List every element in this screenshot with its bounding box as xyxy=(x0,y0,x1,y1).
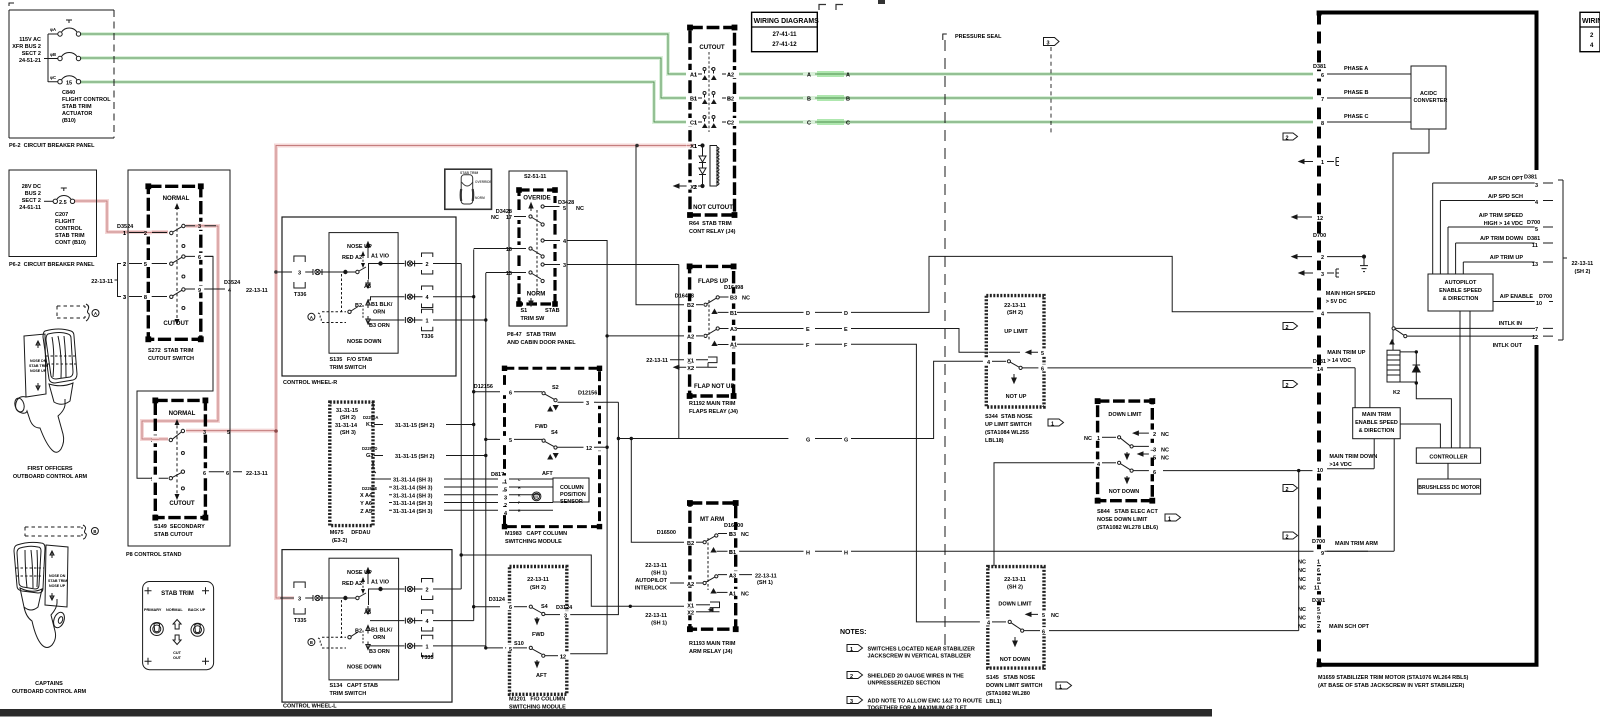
svg-text:(STA1084 WL255: (STA1084 WL255 xyxy=(985,430,1029,436)
svg-text:NC: NC xyxy=(1298,607,1306,613)
svg-text:BRUSHLESS DC MOTOR: BRUSHLESS DC MOTOR xyxy=(1418,485,1480,491)
svg-text:T336: T336 xyxy=(421,334,434,340)
svg-text:STAB CUTOUT: STAB CUTOUT xyxy=(154,532,194,538)
svg-text:CONTROL WHEEL-L: CONTROL WHEEL-L xyxy=(283,704,337,710)
svg-text:NC: NC xyxy=(491,215,499,221)
svg-text:D12156: D12156 xyxy=(474,384,493,390)
svg-text:CONT RELAY (J4): CONT RELAY (J4) xyxy=(689,229,736,235)
svg-text:(SH 1): (SH 1) xyxy=(651,571,667,577)
svg-text:5: 5 xyxy=(1535,227,1538,233)
svg-text:D3524: D3524 xyxy=(117,224,134,230)
svg-text:A1: A1 xyxy=(730,343,737,349)
svg-text:S10: S10 xyxy=(514,641,524,647)
svg-text:2.5: 2.5 xyxy=(59,200,67,206)
svg-text:& DIRECTION: & DIRECTION xyxy=(1359,428,1395,434)
svg-text:5: 5 xyxy=(509,438,512,444)
svg-text:A3: A3 xyxy=(364,610,371,616)
svg-text:DOWN LIMIT: DOWN LIMIT xyxy=(1108,412,1142,418)
svg-text:CUTOUT: CUTOUT xyxy=(699,44,725,51)
svg-text:1: 1 xyxy=(1321,160,1324,166)
svg-text:22-13-11: 22-13-11 xyxy=(645,563,667,569)
svg-text:D381: D381 xyxy=(1313,359,1326,365)
svg-text:MAIN TRIM ARM: MAIN TRIM ARM xyxy=(1335,541,1378,547)
svg-text:D381: D381 xyxy=(1524,175,1537,181)
svg-text:15: 15 xyxy=(66,81,72,87)
svg-text:D3524: D3524 xyxy=(224,280,241,286)
svg-text:NOSE UP: NOSE UP xyxy=(30,369,47,373)
svg-text:AUTOPILOT: AUTOPILOT xyxy=(635,578,667,584)
svg-text:RED A2: RED A2 xyxy=(342,255,362,261)
svg-text:NC: NC xyxy=(741,592,749,598)
svg-text:NOT DOWN: NOT DOWN xyxy=(1000,657,1031,663)
svg-text:24-51-21: 24-51-21 xyxy=(19,58,41,64)
svg-text:(STA1082 WL278 LBL6): (STA1082 WL278 LBL6) xyxy=(1097,525,1158,531)
svg-text:NC: NC xyxy=(1084,436,1092,442)
svg-text:OVERRIDE: OVERRIDE xyxy=(475,180,492,184)
svg-text:POSITION: POSITION xyxy=(560,492,586,498)
svg-text:XFR BUS 2: XFR BUS 2 xyxy=(12,44,41,50)
svg-text:NC: NC xyxy=(576,206,584,212)
svg-text:B2: B2 xyxy=(727,97,734,103)
svg-text:B1 BLK/: B1 BLK/ xyxy=(371,302,393,308)
svg-text:2: 2 xyxy=(425,588,428,594)
svg-text:LBL1): LBL1) xyxy=(986,699,1002,705)
svg-text:STAB TRIM: STAB TRIM xyxy=(48,579,67,583)
svg-text:D16498: D16498 xyxy=(675,294,694,300)
svg-text:G3: G3 xyxy=(366,453,373,459)
svg-text:C207: C207 xyxy=(55,212,68,218)
svg-text:RED A2: RED A2 xyxy=(342,581,362,587)
svg-text:3: 3 xyxy=(504,495,507,501)
svg-text:28V DC: 28V DC xyxy=(22,184,41,190)
svg-text:NOT CUTOUT: NOT CUTOUT xyxy=(693,204,733,211)
svg-text:1: 1 xyxy=(504,480,507,486)
svg-text:17: 17 xyxy=(506,215,512,221)
svg-text:MAIN TRIM DOWN: MAIN TRIM DOWN xyxy=(1329,454,1377,460)
svg-text:10: 10 xyxy=(1536,301,1542,307)
svg-text:D3124: D3124 xyxy=(556,605,573,611)
svg-text:9: 9 xyxy=(1317,616,1320,622)
svg-text:FLAPS UP: FLAPS UP xyxy=(698,278,728,285)
svg-text:T335: T335 xyxy=(421,655,434,661)
svg-text:(STA1082 WL280: (STA1082 WL280 xyxy=(986,691,1030,697)
svg-text:UNPRESSERIZED SECTION: UNPRESSERIZED SECTION xyxy=(868,681,941,687)
svg-text:ENABLE SPEED: ENABLE SPEED xyxy=(1439,288,1482,294)
svg-text:2: 2 xyxy=(144,231,147,237)
svg-text:D: D xyxy=(844,311,848,317)
svg-text:31-31-14 (SH 3): 31-31-14 (SH 3) xyxy=(393,494,433,500)
svg-text:DOWN LIMIT SWITCH: DOWN LIMIT SWITCH xyxy=(986,683,1043,689)
svg-text:B3: B3 xyxy=(730,295,737,301)
svg-text:HIGH > 14 VDC: HIGH > 14 VDC xyxy=(1484,221,1523,227)
svg-text:(AT BASE OF STAB JACKSCREW IN: (AT BASE OF STAB JACKSCREW IN VERT STABI… xyxy=(1318,683,1465,689)
svg-text:3: 3 xyxy=(564,614,567,620)
svg-text:6: 6 xyxy=(1153,470,1156,476)
svg-text:5: 5 xyxy=(509,647,512,653)
svg-text:D700: D700 xyxy=(1539,294,1552,300)
svg-text:27-41-12: 27-41-12 xyxy=(772,41,797,48)
svg-text:2: 2 xyxy=(850,674,853,680)
svg-text:A3: A3 xyxy=(364,284,371,290)
svg-text:2: 2 xyxy=(1286,487,1289,493)
svg-text:R64 STAB TRIM: R64 STAB TRIM xyxy=(689,221,732,227)
svg-text:CX: CX xyxy=(534,495,538,499)
svg-text:JACKSCREW IN VERTICAL STABLIZE: JACKSCREW IN VERTICAL STABLIZER xyxy=(868,654,971,660)
svg-text:G: G xyxy=(806,438,810,444)
svg-text:FWD: FWD xyxy=(532,632,545,638)
svg-text:NC: NC xyxy=(742,295,750,301)
svg-text:NC: NC xyxy=(1298,616,1306,622)
svg-text:AND CABIN DOOR PANEL: AND CABIN DOOR PANEL xyxy=(507,340,576,346)
svg-text:S844 STAB ELEC ACT: S844 STAB ELEC ACT xyxy=(1097,509,1158,515)
svg-text:S135 F/O STAB: S135 F/O STAB xyxy=(330,357,373,363)
svg-text:115V AC: 115V AC xyxy=(19,37,41,43)
svg-text:B1 BLK/: B1 BLK/ xyxy=(371,628,393,634)
svg-text:2: 2 xyxy=(425,262,428,268)
svg-text:P6-2 CIRCUIT BREAKER PANEL: P6-2 CIRCUIT BREAKER PANEL xyxy=(9,143,95,149)
svg-text:31-31-14 (SH 3): 31-31-14 (SH 3) xyxy=(393,486,433,492)
svg-text:D700: D700 xyxy=(1313,233,1326,239)
svg-text:3: 3 xyxy=(298,271,301,277)
svg-text:B2: B2 xyxy=(355,303,362,309)
svg-text:CONTROLLER: CONTROLLER xyxy=(1429,455,1467,461)
svg-text:SWITCHING MODULE: SWITCHING MODULE xyxy=(505,539,562,545)
svg-text:22-13-11: 22-13-11 xyxy=(645,613,667,619)
svg-text:11: 11 xyxy=(1314,586,1320,592)
svg-text:CONT (B10): CONT (B10) xyxy=(55,240,86,246)
svg-text:D2295A: D2295A xyxy=(363,415,378,420)
svg-text:ARM RELAY (J4): ARM RELAY (J4) xyxy=(689,649,733,655)
svg-text:1: 1 xyxy=(1317,560,1320,566)
svg-text:D700: D700 xyxy=(1527,220,1540,226)
svg-text:6: 6 xyxy=(509,390,512,396)
svg-text:3: 3 xyxy=(203,430,206,436)
svg-text:3: 3 xyxy=(850,699,853,705)
svg-text:2: 2 xyxy=(1317,624,1320,630)
svg-text:PHASE A: PHASE A xyxy=(1344,66,1368,72)
svg-text:D381: D381 xyxy=(1313,64,1326,70)
svg-text:NOSE UP: NOSE UP xyxy=(347,244,372,250)
svg-text:NORM: NORM xyxy=(527,291,546,298)
svg-text:A1: A1 xyxy=(690,73,697,79)
svg-text:OVERIDE: OVERIDE xyxy=(523,195,550,202)
svg-text:AC/DC: AC/DC xyxy=(1420,91,1437,97)
svg-text:B2: B2 xyxy=(687,303,694,309)
svg-text:12: 12 xyxy=(560,655,566,661)
svg-text:X2: X2 xyxy=(687,611,694,617)
svg-text:S1: S1 xyxy=(521,308,528,314)
svg-text:B: B xyxy=(310,640,313,645)
svg-text:NOSE UP: NOSE UP xyxy=(49,584,66,588)
svg-text:φB: φB xyxy=(50,52,56,57)
svg-text:ORN: ORN xyxy=(373,310,385,316)
svg-text:D16500: D16500 xyxy=(724,523,743,529)
svg-text:WIRIN: WIRIN xyxy=(1582,18,1600,25)
svg-text:8: 8 xyxy=(1317,577,1320,583)
svg-text:6: 6 xyxy=(1317,568,1320,574)
svg-text:S4: S4 xyxy=(541,604,549,610)
svg-text:S134 CAPT STAB: S134 CAPT STAB xyxy=(330,683,379,689)
svg-text:D: D xyxy=(806,311,810,317)
svg-text:NOSE DN: NOSE DN xyxy=(49,574,66,578)
svg-text:5: 5 xyxy=(144,262,147,268)
svg-text:3: 3 xyxy=(1153,448,1156,454)
svg-text:3: 3 xyxy=(1047,41,1050,47)
svg-text:A1 VIO: A1 VIO xyxy=(371,254,390,260)
svg-text:A/P TRIM DOWN: A/P TRIM DOWN xyxy=(1480,236,1523,242)
svg-text:12: 12 xyxy=(586,446,592,452)
svg-text:SECT 2: SECT 2 xyxy=(22,51,41,57)
svg-text:3: 3 xyxy=(123,295,126,301)
svg-text:BUS 2: BUS 2 xyxy=(25,191,41,197)
svg-text:S145 STAB NOSE: S145 STAB NOSE xyxy=(986,675,1035,681)
svg-text:NOSE DN: NOSE DN xyxy=(30,359,47,363)
svg-text:3: 3 xyxy=(1535,183,1538,189)
svg-text:COLUMN: COLUMN xyxy=(560,485,584,491)
svg-text:A/P SPD SCH: A/P SPD SCH xyxy=(1488,194,1523,200)
svg-text:1: 1 xyxy=(425,645,428,651)
svg-text:3: 3 xyxy=(586,401,589,407)
svg-text:MAIN TRIM UP: MAIN TRIM UP xyxy=(1327,350,1366,356)
svg-text:A3: A3 xyxy=(729,574,736,580)
svg-text:(SH 3): (SH 3) xyxy=(340,430,356,436)
svg-text:A2: A2 xyxy=(727,73,734,79)
svg-text:MT ARM: MT ARM xyxy=(700,516,724,523)
svg-text:8: 8 xyxy=(144,295,147,301)
svg-text:MAIN SCH OPT: MAIN SCH OPT xyxy=(1329,624,1370,630)
svg-text:H: H xyxy=(844,551,848,557)
svg-text:5: 5 xyxy=(227,430,230,436)
svg-text:B3 ORN: B3 ORN xyxy=(369,323,390,329)
svg-text:NORMAL: NORMAL xyxy=(163,195,190,202)
svg-text:A: A xyxy=(310,315,313,320)
svg-text:BACK UP: BACK UP xyxy=(188,608,206,612)
svg-text:2: 2 xyxy=(1321,255,1324,261)
svg-text:CONTROL WHEEL-R: CONTROL WHEEL-R xyxy=(283,380,337,386)
svg-text:B1: B1 xyxy=(690,97,697,103)
svg-text:6: 6 xyxy=(226,471,229,477)
svg-text:5: 5 xyxy=(504,488,507,494)
svg-text:CUTOUT SWITCH: CUTOUT SWITCH xyxy=(148,356,194,362)
svg-text:C840: C840 xyxy=(62,90,75,96)
svg-text:INTLK IN: INTLK IN xyxy=(1499,321,1522,327)
svg-text:NOSE DOWN: NOSE DOWN xyxy=(347,665,382,671)
svg-text:2: 2 xyxy=(123,262,126,268)
svg-text:M1201 F/O COLUMN: M1201 F/O COLUMN xyxy=(509,697,565,703)
svg-text:SHIELDED 20 GAUGE WIRES IN THE: SHIELDED 20 GAUGE WIRES IN THE xyxy=(868,674,965,680)
svg-text:3: 3 xyxy=(198,224,201,230)
svg-text:NC: NC xyxy=(741,532,749,538)
svg-text:B2: B2 xyxy=(355,629,362,635)
svg-text:D12156: D12156 xyxy=(578,391,597,397)
svg-text:14: 14 xyxy=(1317,367,1324,373)
svg-text:3: 3 xyxy=(1321,272,1324,278)
svg-text:2: 2 xyxy=(1286,325,1289,331)
svg-text:NC: NC xyxy=(1298,586,1306,592)
svg-text:WIRING DIAGRAMS: WIRING DIAGRAMS xyxy=(754,18,819,25)
svg-text:6: 6 xyxy=(1041,367,1044,373)
svg-text:PHASE C: PHASE C xyxy=(1344,114,1368,120)
svg-text:B3 ORN: B3 ORN xyxy=(369,649,390,655)
svg-text:X1: X1 xyxy=(690,144,697,150)
svg-text:B: B xyxy=(846,97,850,103)
svg-text:S344 STAB NOSE: S344 STAB NOSE xyxy=(985,414,1033,420)
svg-text:31-31-14 (SH 3): 31-31-14 (SH 3) xyxy=(393,501,433,507)
svg-text:X2: X2 xyxy=(687,366,694,372)
svg-text:13: 13 xyxy=(1532,262,1538,268)
svg-text:NORMAL: NORMAL xyxy=(169,410,196,417)
svg-text:22-13-11: 22-13-11 xyxy=(91,279,113,285)
svg-text:X1: X1 xyxy=(687,604,694,610)
svg-text:22-13-11: 22-13-11 xyxy=(1004,577,1026,583)
svg-text:MAIN TRIM: MAIN TRIM xyxy=(1362,412,1391,418)
svg-text:B1: B1 xyxy=(729,550,736,556)
svg-text:INTERLOCK: INTERLOCK xyxy=(635,586,667,592)
svg-text:5: 5 xyxy=(1153,456,1156,462)
svg-text:B: B xyxy=(807,97,811,103)
svg-text:NC: NC xyxy=(1298,568,1306,574)
svg-text:C1: C1 xyxy=(690,121,697,127)
svg-text:1: 1 xyxy=(123,231,126,237)
svg-text:ENABLE SPEED: ENABLE SPEED xyxy=(1355,420,1398,426)
svg-text:UP LIMIT SWITCH: UP LIMIT SWITCH xyxy=(985,422,1032,428)
svg-text:5: 5 xyxy=(1042,613,1045,619)
svg-text:(SH 2): (SH 2) xyxy=(340,415,356,421)
svg-text:PRESSURE SEAL: PRESSURE SEAL xyxy=(955,34,1002,40)
svg-text:7: 7 xyxy=(1535,327,1538,333)
svg-text:A/P TRIM UP: A/P TRIM UP xyxy=(1490,255,1524,261)
svg-text:(SH 2): (SH 2) xyxy=(1575,269,1591,275)
svg-text:1: 1 xyxy=(425,319,428,325)
svg-text:15: 15 xyxy=(506,271,512,277)
svg-text:C: C xyxy=(846,121,850,127)
svg-text:6: 6 xyxy=(198,255,201,261)
svg-text:E: E xyxy=(844,327,848,333)
svg-text:Y A6: Y A6 xyxy=(360,501,372,507)
svg-text:27-41-11: 27-41-11 xyxy=(772,31,797,38)
svg-text:A: A xyxy=(846,73,850,79)
svg-text:FLAPS RELAY (J4): FLAPS RELAY (J4) xyxy=(689,409,738,415)
svg-text:A3: A3 xyxy=(730,327,737,333)
svg-text:P8 CONTROL STAND: P8 CONTROL STAND xyxy=(126,552,181,558)
svg-text:CUT: CUT xyxy=(173,651,181,655)
svg-text:NC: NC xyxy=(1161,432,1169,438)
svg-text:B: B xyxy=(93,529,96,534)
svg-text:G: G xyxy=(844,438,848,444)
svg-text:NC: NC xyxy=(1298,577,1306,583)
svg-text:D2295E: D2295E xyxy=(362,486,377,491)
svg-text:OUTBOARD CONTROL ARM: OUTBOARD CONTROL ARM xyxy=(12,689,87,695)
svg-text:STAB TRIM: STAB TRIM xyxy=(55,233,85,239)
svg-text:NOTES:: NOTES: xyxy=(840,629,866,636)
svg-text:T336: T336 xyxy=(294,292,307,298)
svg-text:1: 1 xyxy=(1168,517,1171,523)
svg-text:STAB: STAB xyxy=(545,308,560,314)
svg-text:UP LIMIT: UP LIMIT xyxy=(1004,329,1028,335)
svg-text:M1983 CAPT COLUMN: M1983 CAPT COLUMN xyxy=(505,531,567,537)
svg-text:> 14 VDC: > 14 VDC xyxy=(1327,358,1351,364)
svg-text:B1: B1 xyxy=(730,311,737,317)
svg-text:D3124: D3124 xyxy=(489,597,506,603)
svg-text:(E3-2): (E3-2) xyxy=(332,538,347,544)
svg-text:E: E xyxy=(806,327,810,333)
svg-text:M1659 STABILIZER TRIM MOTOR (: M1659 STABILIZER TRIM MOTOR (STA1076 WL2… xyxy=(1318,675,1469,681)
svg-text:NC: NC xyxy=(1161,448,1169,454)
svg-text:31-31-14 (SH 3): 31-31-14 (SH 3) xyxy=(393,478,433,484)
svg-text:S149 SECONDARY: S149 SECONDARY xyxy=(154,524,205,530)
svg-text:ADD NOTE TO ALLOW EMC 1&2 TO R: ADD NOTE TO ALLOW EMC 1&2 TO ROUTE xyxy=(868,699,983,705)
svg-text:NOSE UP: NOSE UP xyxy=(347,570,372,576)
svg-text:A/P TRIM SPEED: A/P TRIM SPEED xyxy=(1479,213,1523,219)
svg-text:D381: D381 xyxy=(1312,598,1325,604)
svg-text:7: 7 xyxy=(1321,97,1324,103)
svg-text:INTLK OUT: INTLK OUT xyxy=(1493,343,1523,349)
svg-text:5: 5 xyxy=(563,206,566,212)
svg-text:6: 6 xyxy=(1042,630,1045,636)
svg-text:A/P ENABLE: A/P ENABLE xyxy=(1500,294,1534,300)
svg-text:2: 2 xyxy=(1286,535,1289,541)
svg-text:MAIN HIGH SPEED: MAIN HIGH SPEED xyxy=(1326,291,1376,297)
svg-text:STAB TRIM: STAB TRIM xyxy=(161,590,194,597)
svg-text:P6-2 CIRCUIT BREAKER PANEL: P6-2 CIRCUIT BREAKER PANEL xyxy=(9,262,95,268)
svg-text:(SH 1): (SH 1) xyxy=(757,580,773,586)
svg-text:TRIM SWITCH: TRIM SWITCH xyxy=(330,365,367,371)
svg-text:M675 DFDAU: M675 DFDAU xyxy=(330,530,371,536)
svg-text:TRIM SWITCH: TRIM SWITCH xyxy=(330,691,367,697)
svg-text:B3: B3 xyxy=(729,532,736,538)
svg-text:AUTOPILOT: AUTOPILOT xyxy=(1445,280,1477,286)
svg-text:31-31-14 (SH 3): 31-31-14 (SH 3) xyxy=(393,509,433,515)
svg-text:STAB TRIM: STAB TRIM xyxy=(62,104,92,110)
svg-text:& DIRECTION: & DIRECTION xyxy=(1443,296,1479,302)
svg-text:R1193 MAIN TRIM: R1193 MAIN TRIM xyxy=(689,641,736,647)
svg-text:K2: K2 xyxy=(1393,390,1400,396)
svg-text:B2: B2 xyxy=(687,541,694,547)
svg-text:12: 12 xyxy=(1317,216,1323,222)
svg-text:31-31-15 (SH 2): 31-31-15 (SH 2) xyxy=(395,454,435,460)
svg-text:(SH 2): (SH 2) xyxy=(1007,310,1023,316)
svg-text:X A4: X A4 xyxy=(360,493,373,499)
svg-text:22-13-11: 22-13-11 xyxy=(755,574,777,580)
svg-text:SWITCHES LOCATED NEAR STABILIZ: SWITCHES LOCATED NEAR STABILIZER xyxy=(868,647,975,653)
svg-text:DOWN LIMIT: DOWN LIMIT xyxy=(998,602,1032,608)
svg-text:NORMAL: NORMAL xyxy=(166,608,183,612)
svg-text:31-31-14: 31-31-14 xyxy=(335,423,358,429)
svg-text:φC: φC xyxy=(50,75,56,80)
svg-text:TRIM SW: TRIM SW xyxy=(521,316,546,322)
svg-text:FWD: FWD xyxy=(535,424,548,430)
svg-text:PRIMARY: PRIMARY xyxy=(144,608,162,612)
svg-text:2: 2 xyxy=(504,503,507,509)
svg-text:22-13-11: 22-13-11 xyxy=(646,358,668,364)
svg-text:X1: X1 xyxy=(687,359,694,365)
svg-text:NOT DOWN: NOT DOWN xyxy=(1109,489,1140,495)
svg-text:10: 10 xyxy=(1317,468,1323,474)
svg-text:6: 6 xyxy=(203,471,206,477)
svg-text:FIRST OFFICERS: FIRST OFFICERS xyxy=(27,466,73,472)
svg-text:(SH 2): (SH 2) xyxy=(1007,585,1023,591)
svg-text:NC: NC xyxy=(1298,560,1306,566)
svg-text:2: 2 xyxy=(1286,383,1289,389)
svg-text:SECT 2: SECT 2 xyxy=(22,198,41,204)
svg-text:FLAP NOT UP: FLAP NOT UP xyxy=(694,383,735,390)
svg-text:T335: T335 xyxy=(294,618,307,624)
svg-text:22-13-11: 22-13-11 xyxy=(246,471,268,477)
svg-text:31-31-15: 31-31-15 xyxy=(336,408,358,414)
svg-text:>14 VDC: >14 VDC xyxy=(1329,462,1351,468)
svg-text:16: 16 xyxy=(506,247,512,253)
svg-text:22-13-11: 22-13-11 xyxy=(527,577,549,583)
